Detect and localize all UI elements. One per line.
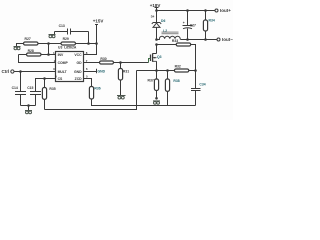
svg-text:GD: GD	[77, 61, 83, 65]
wire Ctrl to MULT	[14, 71, 55, 73]
capacitor C13	[55, 24, 89, 34]
wire INV node drop	[48, 44, 50, 55]
wire COMP loop	[19, 55, 56, 63]
transistor Q3	[151, 45, 162, 62]
resistor R31	[118, 63, 129, 96]
wire ZCD to R36	[84, 79, 92, 87]
IC U3 L6562A	[53, 46, 88, 82]
resistor R35	[42, 79, 55, 110]
svg-text:R36: R36	[94, 87, 100, 91]
svg-text:R29: R29	[63, 37, 69, 41]
node R29 right	[95, 42, 98, 45]
ground C14/C15	[25, 106, 32, 114]
svg-text:3: 3	[53, 67, 55, 71]
resistor R29	[49, 37, 97, 45]
wire diode to switch node	[156, 28, 158, 40]
svg-text:GND: GND	[98, 70, 106, 74]
wire Iout- rail	[181, 39, 217, 41]
svg-text:GND: GND	[74, 70, 82, 74]
capacitor C15	[27, 86, 41, 105]
svg-text:C13: C13	[59, 24, 65, 28]
svg-text:D4: D4	[151, 14, 155, 18]
svg-text:C14: C14	[12, 86, 18, 90]
svg-text:+: +	[183, 21, 185, 25]
svg-text:C15: C15	[27, 86, 33, 90]
svg-text:D6: D6	[161, 19, 165, 23]
port Ctrl	[2, 69, 14, 74]
svg-text:C34: C34	[199, 83, 205, 87]
resistor R30	[100, 57, 149, 64]
svg-text:ZCD: ZCD	[75, 77, 83, 81]
node C27 bottom	[186, 38, 189, 41]
node INV pin	[47, 53, 50, 56]
capacitor C14	[12, 72, 26, 106]
wire INV pin	[49, 54, 56, 56]
wire +15V rail	[84, 31, 97, 55]
wire R36 to C34 bottom line	[137, 105, 196, 107]
wire source down	[156, 61, 158, 70]
resistor R38	[165, 71, 179, 106]
node R31 top	[119, 61, 122, 64]
wire gate riser	[149, 59, 151, 63]
node CS / R35	[43, 77, 46, 80]
power +15V	[93, 19, 104, 31]
inductor L2	[157, 29, 181, 40]
svg-text:MULT: MULT	[58, 70, 68, 74]
wire +18V rail down to diode	[156, 11, 158, 23]
port Iout+	[215, 8, 231, 13]
node top rail / +18V	[155, 9, 158, 12]
svg-text:R32: R32	[175, 65, 181, 69]
resistor R28	[19, 49, 49, 56]
wire top output rail	[157, 10, 215, 12]
ground C13	[49, 35, 56, 38]
node R38 top	[166, 69, 169, 72]
capacitor C27	[183, 11, 197, 40]
svg-text:Iout−: Iout−	[222, 37, 233, 42]
resistor R34	[203, 11, 214, 40]
node C27 top	[186, 9, 189, 12]
diode D6	[152, 19, 166, 27]
svg-text:Ctrl: Ctrl	[2, 69, 10, 74]
svg-text:Iout+: Iout+	[220, 8, 231, 13]
svg-text:INV: INV	[58, 53, 64, 57]
svg-text:R27: R27	[25, 37, 31, 41]
svg-text:Q3: Q3	[157, 55, 162, 59]
node R32 / C34	[194, 69, 197, 72]
svg-text:COMP: COMP	[58, 61, 69, 65]
wire bottom rail	[45, 106, 137, 110]
svg-text:C27: C27	[190, 23, 196, 27]
node switch / L2	[155, 38, 158, 41]
resistor R32	[168, 65, 196, 72]
resistor R37	[148, 71, 159, 99]
resistor R27	[17, 37, 49, 47]
resistor R33	[157, 39, 196, 88]
node R37 ground	[155, 97, 158, 100]
wire GD line	[84, 62, 100, 64]
capacitor C34	[191, 83, 206, 106]
svg-text:+15V: +15V	[93, 19, 104, 24]
wire C14-C15 bottom	[21, 105, 36, 107]
node C13/R29	[87, 42, 90, 45]
node switch to R33	[155, 43, 158, 46]
svg-text:VCC: VCC	[74, 53, 82, 57]
node R34 top	[204, 9, 207, 12]
power +18V	[150, 3, 161, 11]
wire C13 right drop	[88, 32, 90, 44]
node C14 top	[19, 70, 22, 73]
resistor R36	[89, 87, 136, 106]
wire GND net label pin6	[84, 69, 106, 74]
svg-text:6: 6	[86, 67, 88, 71]
node source	[155, 69, 158, 72]
wire source sense drop	[136, 71, 138, 106]
node R34 bottom	[204, 38, 207, 41]
svg-text:R37: R37	[148, 78, 154, 82]
wire source line	[137, 70, 168, 72]
svg-text:R35: R35	[49, 87, 55, 91]
svg-text:U3 L6562A: U3 L6562A	[58, 46, 77, 50]
svg-text:R38: R38	[173, 79, 179, 83]
ground R27	[14, 47, 21, 50]
ground R31	[117, 96, 126, 100]
node ground C14/C15	[27, 104, 30, 107]
port Iout-	[217, 37, 233, 42]
svg-text:CS: CS	[58, 77, 63, 81]
wire CS line	[36, 79, 56, 92]
svg-text:R31: R31	[123, 69, 129, 73]
svg-text:R34: R34	[209, 19, 215, 23]
ground R37	[153, 101, 160, 104]
node INV divider	[47, 42, 50, 45]
